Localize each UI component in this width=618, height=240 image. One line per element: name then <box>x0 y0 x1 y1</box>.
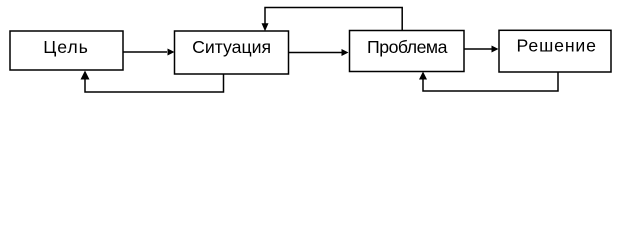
arrow Цель to Ситуация <box>123 49 175 56</box>
box Решение <box>499 30 611 72</box>
arrow Проблема to Решение <box>464 46 499 53</box>
feedback Решение to Проблема (bottom right) <box>419 72 558 92</box>
svg-text:Решение: Решение <box>517 36 597 56</box>
box Проблема <box>350 31 465 72</box>
arrow Ситуация to Проблема <box>289 49 349 56</box>
box Цель <box>10 31 123 70</box>
feedback Ситуация to Цель (bottom left) <box>81 71 224 93</box>
box Ситуация <box>175 31 289 74</box>
feedback Проблема to Ситуация (top) <box>262 8 403 32</box>
svg-text:Ситуация: Ситуация <box>192 37 271 57</box>
svg-text:Цель: Цель <box>43 37 88 57</box>
svg-text:Проблема: Проблема <box>367 37 448 57</box>
